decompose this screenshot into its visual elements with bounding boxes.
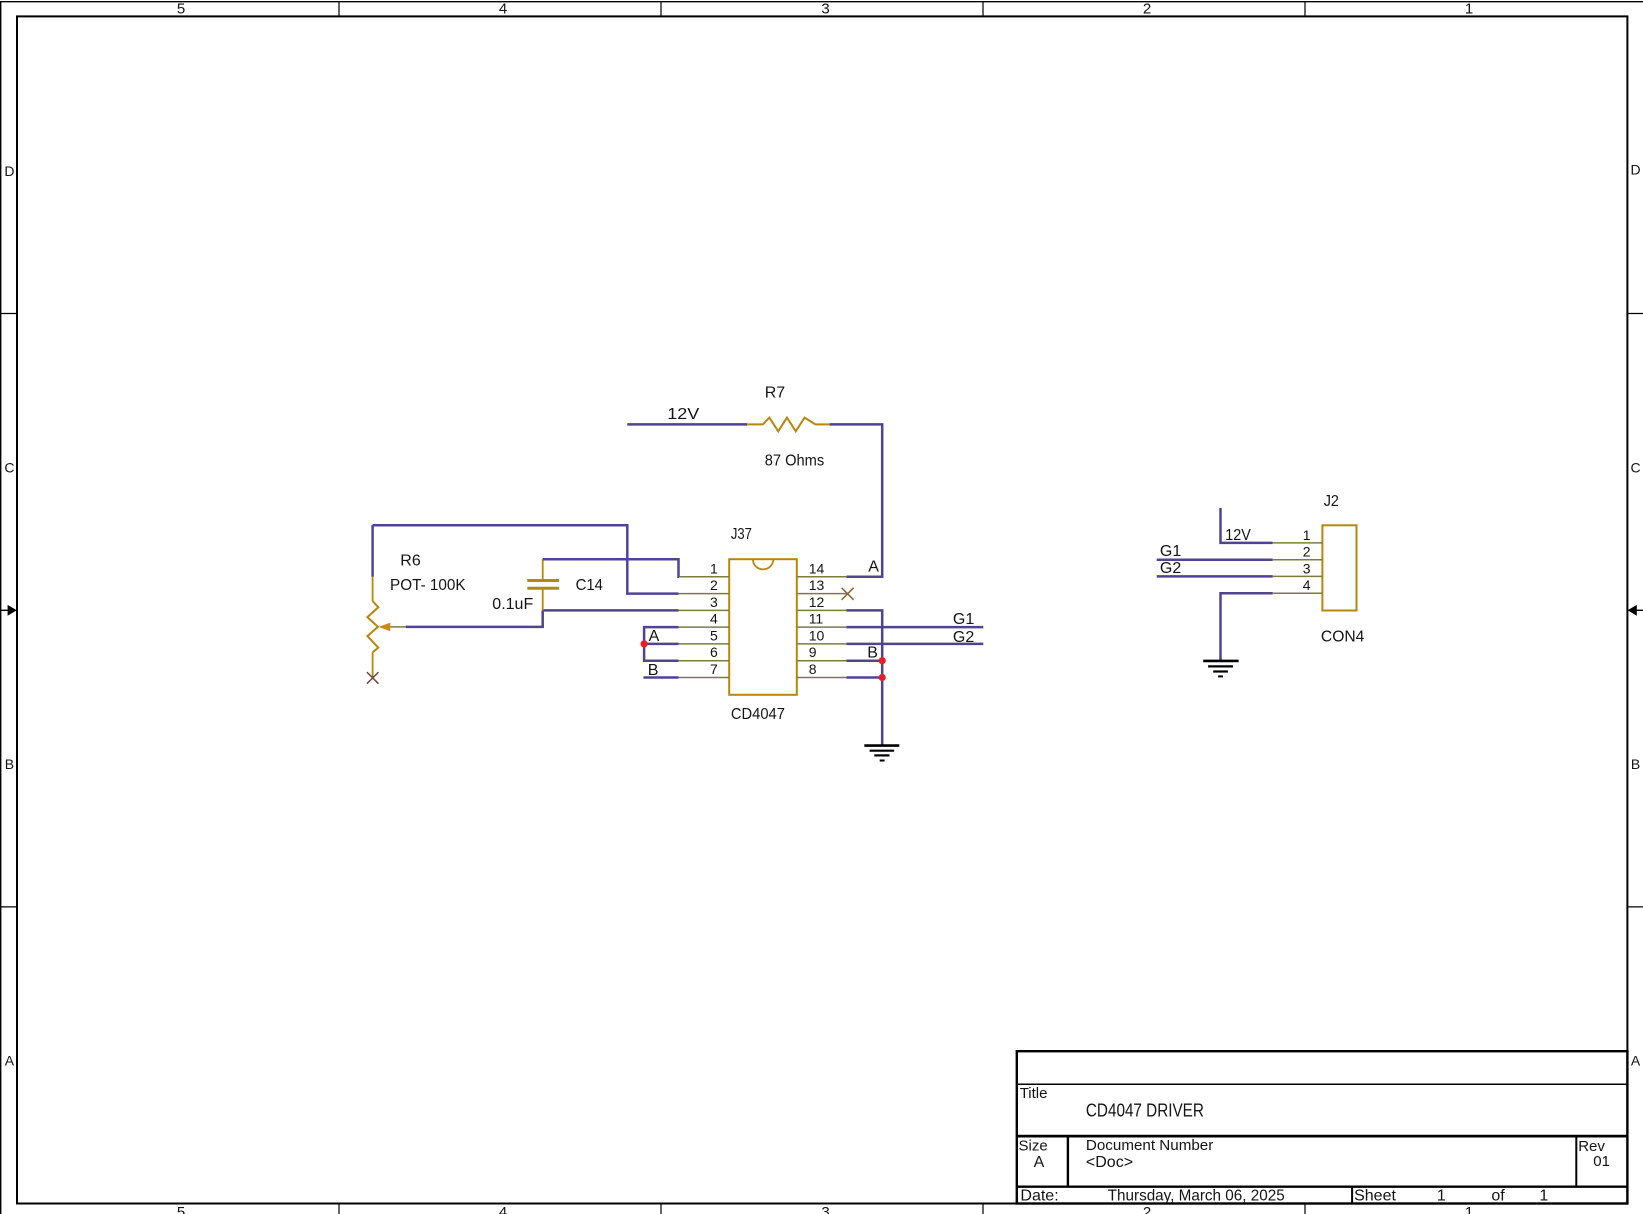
wire pin 10 to net G2 [846,643,983,646]
svg-text:13: 13 [809,577,825,593]
junction dot pin 9 [879,657,886,664]
svg-text:CD4047: CD4047 [731,706,785,723]
svg-text:10: 10 [809,627,825,643]
svg-text:7: 7 [710,661,718,677]
svg-text:2: 2 [1303,544,1311,560]
svg-text:A: A [649,628,660,645]
svg-text:87 Ohms: 87 Ohms [765,453,825,470]
svg-text:of: of [1491,1187,1505,1204]
svg-text:D: D [4,163,14,179]
resistor R7 [747,418,829,432]
svg-text:1: 1 [1539,1187,1548,1204]
wire pin 11 to net G1 [846,626,983,629]
svg-text:B: B [648,662,659,679]
wire C14 bottom node to pin 3 [543,609,679,612]
svg-text:2: 2 [710,577,718,593]
svg-text:12V: 12V [1225,527,1251,544]
svg-text:2: 2 [1143,0,1151,17]
svg-text:8: 8 [809,661,817,677]
wire C14 top to pin 1 of J37 [543,559,679,577]
svg-text:CD4047 DRIVER: CD4047 DRIVER [1086,1100,1204,1120]
svg-text:A: A [1631,1053,1641,1069]
svg-text:C: C [1631,460,1641,476]
svg-text:01: 01 [1593,1153,1610,1170]
svg-text:D: D [1631,162,1641,178]
svg-text:J2: J2 [1324,493,1339,510]
svg-text:4: 4 [1303,577,1311,593]
svg-text:6: 6 [710,644,718,660]
svg-text:Title: Title [1020,1085,1048,1102]
no-connect X on pin 13 [842,588,854,600]
capacitor C14 [527,559,559,610]
wire pin 4 to pins 5-6 tie (node A) [644,627,678,661]
svg-text:B: B [1631,756,1640,772]
ground (J2) [1203,661,1238,677]
svg-text:R6: R6 [400,553,421,570]
wire G2 to J2 pin 3 [1157,575,1273,578]
J37 right pin leads 14-8 [797,577,847,678]
junction dot pin 5 (node A) [641,640,648,647]
wire pin 12 down to ground [846,610,882,745]
J37 pin numbers right 14-8 [809,560,825,677]
svg-text:0.1uF: 0.1uF [492,596,533,613]
svg-text:G2: G2 [1160,560,1181,577]
wire J2 pin 4 to ground [1221,593,1273,661]
svg-text:Date:: Date: [1020,1187,1058,1204]
potentiometer R6 [367,576,405,678]
svg-text:B: B [5,756,14,772]
svg-text:A: A [5,1053,15,1069]
wire pin 7 stub (node B) [643,676,678,679]
svg-text:12V: 12V [667,406,699,423]
connector J2 body [1322,525,1356,610]
wire G1 to J2 pin 2 [1157,558,1273,561]
svg-text:1: 1 [710,560,718,576]
wire R7 to pin 14 of J37 [830,424,883,576]
svg-text:5: 5 [177,1204,185,1214]
wire R6 wiper to C14 bottom node [406,610,543,627]
J37 left pin leads 1-7 [679,577,730,678]
svg-text:G1: G1 [1160,543,1181,560]
svg-text:B: B [867,645,878,662]
wire 12V stub to J2 pin 1 [1221,508,1273,543]
svg-text:4: 4 [499,0,507,17]
svg-text:3: 3 [1303,560,1311,576]
svg-text:CON4: CON4 [1321,628,1365,645]
svg-text:Document Number: Document Number [1086,1137,1213,1154]
wire R6 top vertical [371,525,374,576]
svg-text:4: 4 [710,611,718,627]
svg-text:POT- 100K: POT- 100K [390,577,466,594]
svg-text:12: 12 [809,594,825,610]
svg-text:4: 4 [499,1204,507,1214]
svg-text:14: 14 [809,560,825,576]
svg-text:11: 11 [809,611,824,627]
svg-text:1: 1 [1465,0,1473,17]
svg-text:J37: J37 [731,526,752,543]
svg-text:Sheet: Sheet [1354,1187,1396,1204]
wire 12V feed to R7 [627,423,747,426]
svg-text:3: 3 [821,0,829,17]
svg-text:1: 1 [1303,527,1311,543]
svg-text:G2: G2 [953,629,974,646]
svg-text:2: 2 [1143,1204,1151,1214]
IC J37 CD4047 body [729,559,797,695]
svg-text:1: 1 [1465,1204,1473,1214]
svg-text:Thursday, March 06, 2025: Thursday, March 06, 2025 [1108,1187,1285,1204]
svg-text:3: 3 [710,594,718,610]
wire R6 top to pin 2 of J37 [373,525,679,593]
J37 pin numbers left 1-7 [710,560,718,677]
svg-text:1: 1 [1437,1187,1446,1204]
svg-text:A: A [1034,1154,1045,1171]
junction dot pin 8 [879,674,886,681]
title block [1017,1051,1628,1204]
no-connect X at R6 bottom [367,672,379,684]
J2 pin numbers 1-4 [1303,527,1311,593]
svg-text:C: C [4,460,14,476]
svg-text:A: A [868,559,879,576]
svg-text:<Doc>: <Doc> [1086,1154,1133,1171]
svg-text:3: 3 [821,1204,829,1214]
svg-text:9: 9 [809,644,817,660]
svg-text:C14: C14 [576,577,603,594]
wire pin 8 to B node [846,676,882,679]
svg-text:R7: R7 [765,385,786,402]
svg-text:G1: G1 [953,611,974,628]
svg-text:Size: Size [1019,1137,1048,1154]
ground (below J37) [864,746,899,761]
svg-text:5: 5 [177,0,185,17]
svg-text:5: 5 [710,627,718,643]
J2 pin leads 1-4 [1273,543,1323,593]
wire pin 9 to B node [846,659,882,662]
wire pin 5 stub [644,643,678,646]
